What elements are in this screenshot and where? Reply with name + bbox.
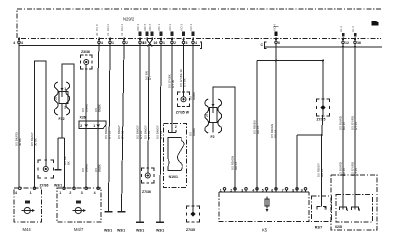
svg-text:W3/1: W3/1 — [156, 228, 164, 232]
wire: loop M4/7 pin 2 up over into fuse F32 — [62, 64, 74, 187]
pin 4 left on N29/2 — [13, 38, 23, 45]
svg-text:Z7/36: Z7/36 — [40, 184, 49, 188]
relay K5 box — [219, 192, 309, 233]
control unit N29/2 — [17, 9, 381, 39]
svg-text:R3/7: R3/7 — [315, 225, 322, 229]
K5 internal fuse symbol — [265, 197, 269, 212]
svg-text:GY: GY — [148, 76, 152, 80]
svg-text:GY 15: GY 15 — [354, 121, 358, 130]
svg-text:HL 6: HL 6 — [351, 26, 355, 32]
wire: Z3/36 down to M4/7 pin 3 — [85, 65, 87, 189]
svg-text:MX 1: MX 1 — [157, 23, 161, 30]
svg-text:1: 1 — [220, 188, 222, 192]
svg-text:BU 15: BU 15 — [342, 168, 346, 176]
svg-text:1: 1 — [59, 191, 61, 195]
svg-text:RD 15: RD 15 — [274, 129, 278, 138]
connector X2/8 outer box — [331, 175, 377, 230]
svg-text:W3/1: W3/1 — [54, 184, 62, 188]
svg-text:X2/8: X2/8 — [335, 225, 342, 229]
wire: F2 top over to K5 pin 2 — [213, 87, 235, 193]
svg-text:BK: BK — [67, 161, 71, 165]
svg-text:4: 4 — [101, 41, 103, 45]
wire: pin 1 (x161) to ground W3/1 — [160, 44, 161, 222]
wire: pin 12 down to X2/8 pin 1 — [342, 44, 344, 208]
wire: pin 4 (x193) down to Z7/35 bottom — [192, 44, 194, 212]
svg-text:X26: X26 — [80, 116, 86, 120]
solder point Z7/35 bottom — [186, 206, 200, 232]
pin 3 (x183.5) of N29/2 — [180, 24, 188, 45]
wire: Z7/25 down to R3/7 with branch to K5 pin 8 — [297, 110, 323, 207]
svg-text:GY 31: GY 31 — [139, 130, 143, 139]
svg-text:HL 2: HL 2 — [339, 26, 343, 32]
svg-text:1: 1 — [30, 191, 32, 195]
wire: pin 3 (x183.5) down to Z7/35 — [183, 44, 185, 97]
svg-text:BNBK: BNBK — [97, 164, 101, 172]
svg-text:M44: M44 — [23, 227, 32, 232]
svg-text:4: 4 — [195, 41, 197, 45]
wire: pin 1 (x110) to ground W3/1 — [109, 44, 111, 212]
wire: pin 2 (x172) down to N10/1 — [171, 44, 173, 133]
svg-text:12: 12 — [345, 41, 349, 45]
svg-text:N29/2: N29/2 — [123, 17, 135, 22]
wire: pin 4 down to M44 — [18, 44, 20, 188]
svg-text:15: 15 — [143, 41, 147, 45]
svg-text:5: 5 — [324, 207, 326, 211]
svg-text:GY 31: GY 31 — [108, 130, 112, 139]
svg-text:K5: K5 — [262, 228, 268, 233]
svg-text:RD 15: RD 15 — [320, 168, 324, 177]
fuse F32 — [54, 80, 70, 121]
svg-text:7: 7 — [282, 188, 284, 192]
svg-text:8: 8 — [292, 188, 294, 192]
fuse F2 — [205, 98, 222, 139]
svg-text:MX 5: MX 5 — [143, 23, 147, 30]
svg-text:25: 25 — [205, 113, 209, 117]
pin 1 (x161) of N29/2 — [157, 23, 165, 45]
pin 36 (x356) of N29/2 — [351, 26, 361, 45]
pin 3 (x140) of N29/2 — [136, 23, 144, 45]
svg-text:6: 6 — [278, 41, 280, 45]
pins 15/16 crossing wires — [143, 23, 158, 46]
svg-text:GN 2: GN 2 — [106, 24, 110, 31]
svg-text:MX 6: MX 6 — [148, 23, 152, 30]
wire: left bus from pin 4 — [19, 45, 200, 47]
svg-text:KO 2: KO 2 — [168, 24, 172, 31]
svg-text:GY 31: GY 31 — [147, 130, 151, 139]
wire: M44 pin 1 up over to Z7/36 — [34, 61, 45, 187]
svg-text:W3/1: W3/1 — [136, 228, 144, 232]
solder point Z3/36 — [81, 50, 93, 69]
bracket end of left bus — [200, 42, 202, 49]
svg-text:3: 3 — [81, 191, 83, 195]
svg-text:GY 31: GY 31 — [121, 130, 125, 139]
svg-text:GY BK: GY BK — [183, 78, 187, 87]
svg-text:F2: F2 — [211, 135, 215, 139]
svg-text:RD 15: RD 15 — [234, 161, 238, 170]
X2/8 pin 3 — [352, 207, 359, 210]
svg-text:KO 6: KO 6 — [272, 24, 276, 31]
wire: pin 4 (x99) down to M4/7 pin 4 — [97, 44, 100, 188]
svg-text:GY 15: GY 15 — [354, 167, 358, 176]
svg-text:RDBK: RDBK — [192, 92, 196, 100]
K5 pins 1-8 — [220, 188, 307, 193]
svg-text:4: 4 — [21, 41, 23, 45]
solder point Z7/25 — [317, 99, 330, 122]
svg-text:MX 3: MX 3 — [136, 23, 140, 30]
svg-text:PU 8: PU 8 — [95, 24, 99, 31]
svg-text:2: 2 — [175, 125, 177, 129]
svg-text:6: 6 — [271, 188, 273, 192]
svg-text:1: 1 — [64, 87, 66, 91]
wire: pin 2 (x124) to ground W3/1 — [122, 44, 125, 212]
svg-text:GN 4: GN 4 — [120, 24, 124, 31]
ground W3/1 stub left — [55, 169, 62, 171]
svg-text:W3/1: W3/1 — [104, 228, 112, 232]
motor M44 — [14, 187, 42, 232]
svg-text:Z7/35 W: Z7/35 W — [176, 111, 190, 115]
solder point Z7/36 left — [38, 160, 54, 188]
info icon — [372, 21, 379, 25]
svg-text:4: 4 — [252, 188, 254, 192]
svg-text:W3/1: W3/1 — [117, 228, 125, 232]
svg-text:4: 4 — [94, 191, 96, 195]
svg-text:Z7/36: Z7/36 — [142, 190, 151, 194]
X2/8 pin 1 — [340, 207, 347, 210]
motor M4/7 — [57, 187, 101, 232]
svg-text:9: 9 — [301, 188, 303, 192]
connector X26 — [79, 116, 106, 129]
svg-text:2: 2 — [126, 41, 128, 45]
pin 2 (x124) of N29/2 — [120, 24, 128, 45]
svg-text:5: 5 — [262, 188, 264, 192]
wire: pin 3 (x140) to ground W3/1 — [139, 44, 141, 222]
svg-text:4: 4 — [13, 41, 15, 45]
svg-text:30 BK: 30 BK — [18, 138, 22, 146]
svg-text:1: 1 — [112, 41, 114, 45]
svg-text:16: 16 — [153, 41, 157, 45]
svg-text:2: 2 — [230, 188, 232, 192]
svg-text:Z7/25: Z7/25 — [317, 118, 326, 122]
solder point Z7/36 mid — [142, 168, 155, 194]
svg-text:2: 2 — [80, 124, 82, 128]
wire: right bus — [265, 46, 383, 48]
svg-text:N10/1: N10/1 — [169, 175, 178, 179]
solder point Z7/35 — [176, 92, 190, 115]
pin 4 (x99) of N29/2 — [95, 24, 103, 45]
svg-text:RD 15: RD 15 — [256, 125, 260, 134]
control module N10/1 — [164, 124, 187, 188]
svg-text:3: 3 — [241, 188, 243, 192]
svg-text:2: 2 — [64, 106, 66, 110]
X2/8 inner box — [336, 195, 373, 223]
svg-text:1: 1 — [346, 208, 348, 212]
svg-text:1: 1 — [93, 124, 95, 128]
wire: fuse F32 splits to ground and M4/7 pin 1 — [58, 113, 65, 188]
svg-text:31: 31 — [120, 32, 124, 36]
svg-text:30 BK: 30 BK — [34, 138, 38, 146]
svg-text:1: 1 — [163, 41, 165, 45]
svg-text:3: 3 — [358, 208, 360, 212]
svg-text:GY 30: GY 30 — [171, 79, 175, 88]
svg-text:BNBK: BNBK — [97, 104, 101, 112]
pin 6 (x276) of N29/2 — [272, 24, 280, 45]
svg-text:BNRD: BNRD — [84, 164, 88, 172]
svg-text:KO 3: KO 3 — [180, 24, 184, 31]
svg-text:M4/7: M4/7 — [74, 227, 84, 232]
pin 1 (x110) of N29/2 — [106, 24, 114, 45]
pin 4 (x193) of N29/2 — [189, 24, 197, 45]
svg-text:Z3/36: Z3/36 — [81, 50, 90, 54]
svg-text:BNRD: BNRD — [84, 104, 88, 112]
wire: pin 6 splits three ways — [257, 44, 323, 192]
svg-text:RDBK: RDBK — [192, 128, 196, 136]
svg-text:4: 4 — [15, 191, 17, 195]
pin 12 (x343) of N29/2 — [339, 26, 349, 45]
pin 2 (x172) of N29/2 — [168, 24, 176, 45]
wire: pin 36 down to X2/8 pin 3 — [354, 44, 356, 208]
svg-text:25: 25 — [54, 96, 58, 100]
svg-text:31: 31 — [106, 32, 110, 36]
wire: crossed pin down to Z7/36 mid — [148, 47, 149, 174]
svg-text:Z7/35: Z7/35 — [186, 228, 195, 232]
svg-text:BU 15: BU 15 — [342, 122, 346, 130]
svg-text:2: 2 — [174, 41, 176, 45]
svg-text:GY 31: GY 31 — [159, 130, 163, 139]
svg-text:3: 3 — [186, 41, 188, 45]
svg-text:2: 2 — [69, 191, 71, 195]
svg-text:30: 30 — [95, 32, 99, 36]
svg-text:36: 36 — [357, 41, 361, 45]
relay module R3/7 — [312, 196, 332, 229]
svg-text:KO 4: KO 4 — [189, 24, 193, 31]
